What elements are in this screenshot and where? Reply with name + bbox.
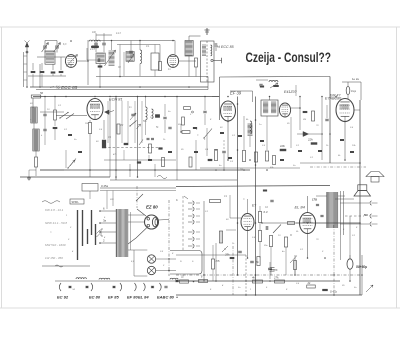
svg-text:2M: 2M: [119, 125, 123, 127]
svg-text:22k: 22k: [307, 138, 313, 142]
svg-text:½ ECC 85: ½ ECC 85: [217, 45, 234, 49]
svg-text:E7ABC80: E7ABC80: [325, 97, 342, 101]
svg-text:4-13: 4-13: [116, 32, 121, 35]
svg-text:SPW 41.1 - 50.8: SPW 41.1 - 50.8: [45, 221, 67, 225]
svg-text:0.45a: 0.45a: [101, 184, 108, 188]
svg-text:E?: E?: [252, 204, 256, 208]
svg-text:1M: 1M: [240, 169, 243, 171]
svg-text:SP/RL: SP/RL: [72, 201, 80, 204]
svg-text:10k: 10k: [280, 144, 285, 148]
svg-text:EF 80: EF 80: [127, 295, 138, 300]
svg-text:MW 510 - 1630: MW 510 - 1630: [45, 243, 66, 247]
svg-text:50: 50: [40, 91, 44, 95]
svg-text:EC 80: EC 80: [89, 295, 101, 300]
svg-text:KW 4.8 - 13.1: KW 4.8 - 13.1: [45, 208, 64, 212]
svg-text:3a: 3a: [103, 219, 107, 223]
svg-text:27k: 27k: [215, 259, 221, 263]
svg-text:25k: 25k: [224, 253, 230, 257]
svg-text:EL 84: EL 84: [295, 205, 306, 210]
svg-text:17Ω: 17Ω: [312, 198, 317, 202]
svg-text:1e 2e: 1e 2e: [352, 77, 359, 81]
svg-text:LW 150 - 350: LW 150 - 350: [45, 256, 63, 260]
svg-text:EL 84: EL 84: [138, 295, 149, 300]
svg-text:2M: 2M: [302, 119, 306, 121]
svg-text:27k: 27k: [273, 276, 279, 280]
svg-text:½ ECC 85: ½ ECC 85: [56, 84, 78, 90]
svg-text:Czeija - Consul??: Czeija - Consul??: [246, 50, 332, 65]
svg-text:+: +: [176, 296, 178, 300]
svg-text:1M: 1M: [85, 123, 88, 125]
svg-text:2-13: 2-13: [89, 48, 95, 51]
svg-text:EF 85: EF 85: [108, 295, 119, 300]
svg-text:EC 92: EC 92: [57, 295, 69, 300]
svg-text:220: 220: [109, 199, 114, 201]
svg-text:50+50µ: 50+50µ: [356, 265, 367, 269]
svg-text:E41Z0?: E41Z0?: [284, 90, 297, 94]
svg-text:0.47µ: 0.47µ: [330, 290, 337, 294]
svg-text:0.1µ: 0.1µ: [351, 89, 357, 93]
svg-text:2k: 2k: [307, 281, 312, 285]
svg-text:EABC 80: EABC 80: [157, 295, 175, 300]
svg-text:EZ 80: EZ 80: [146, 205, 158, 210]
svg-text:0.3: 0.3: [264, 210, 268, 214]
svg-text:25n: 25n: [263, 245, 268, 247]
